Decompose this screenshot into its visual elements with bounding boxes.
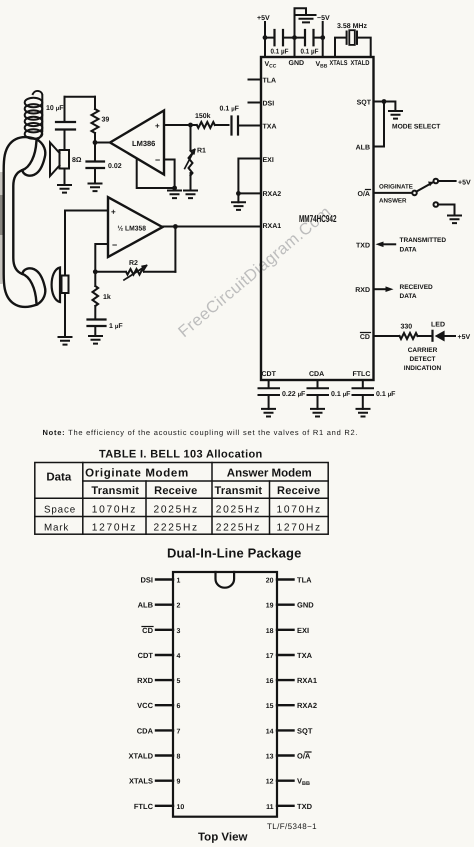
capacitor 1uF: [88, 320, 106, 327]
node junction EXI/RXA2: [236, 191, 241, 196]
wire cap to top: [64, 97, 66, 122]
wire SQT to ALB: [374, 102, 385, 147]
svg-text:39: 39: [102, 117, 110, 124]
svg-text:Receive: Receive: [154, 485, 197, 497]
overline CD pin3: [142, 626, 153, 628]
svg-text:10 µF: 10 µF: [46, 105, 64, 112]
power -5V: [317, 15, 330, 22]
ground (1uF): [89, 336, 102, 344]
svg-text:XTALD: XTALD: [351, 60, 370, 67]
wire 1uF to ground: [94, 326, 96, 336]
svg-text:LED: LED: [431, 322, 445, 329]
DIP pin numbers: [177, 578, 185, 811]
svg-text:15: 15: [266, 703, 274, 710]
ground (mic): [59, 337, 72, 345]
telephone handset handle: [4, 137, 37, 307]
svg-text:TLA: TLA: [263, 78, 277, 85]
node junction LM358 out: [173, 224, 178, 229]
wire LED to +5V: [445, 335, 455, 337]
svg-text:ALB: ALB: [356, 145, 370, 152]
svg-text:Space: Space: [44, 505, 76, 516]
svg-text:1: 1: [177, 578, 181, 585]
svg-text:VCC: VCC: [137, 701, 153, 710]
wire LM386 + input: [164, 124, 191, 126]
svg-text:Answer Modem: Answer Modem: [227, 468, 312, 480]
node junction R1: [188, 123, 193, 128]
svg-text:1070Hz: 1070Hz: [92, 505, 137, 516]
resistor 39: [92, 97, 99, 143]
LED D1: [431, 331, 433, 341]
capacitor 0.22uF (CDT): [259, 380, 280, 409]
svg-text:XTALS: XTALS: [129, 777, 153, 786]
svg-text:DATA: DATA: [400, 293, 417, 300]
capacitor 0.1uF (TXA): [232, 117, 239, 135]
node junction 39/LM386: [93, 140, 98, 145]
svg-text:INDICATION: INDICATION: [404, 365, 442, 372]
svg-text:TXA: TXA: [263, 124, 277, 131]
ground (GND pin): [297, 15, 316, 22]
svg-text:4: 4: [177, 653, 181, 660]
watermark FreeCircuitDiagram.Com: [175, 203, 335, 341]
svg-text:VBB: VBB: [297, 777, 310, 788]
resistor 150k: [191, 122, 229, 128]
switch lever: [417, 182, 434, 192]
node junction R2/1k: [93, 269, 98, 274]
svg-text:1k: 1k: [103, 293, 111, 301]
svg-text:+: +: [111, 208, 116, 217]
svg-text:O/A: O/A: [358, 190, 370, 198]
resistor R1 (variable): [189, 125, 193, 191]
svg-text:Note: The efficiency of the a: Note: The efficiency of the acoustic cou…: [43, 428, 359, 437]
resistor R2 (variable): [95, 269, 175, 275]
svg-text:MM74HC942: MM74HC942: [299, 214, 337, 225]
microphone: [62, 276, 69, 294]
svg-text:TXD: TXD: [297, 802, 313, 811]
wire GND pin up: [295, 8, 307, 57]
wire speaker to ground: [64, 169, 66, 186]
svg-text:TL/F/5348−1: TL/F/5348−1: [267, 822, 317, 831]
ground (CDT): [262, 409, 275, 417]
svg-text:+5V: +5V: [458, 334, 471, 341]
svg-text:MODE SELECT: MODE SELECT: [392, 124, 441, 131]
svg-text:R2: R2: [129, 260, 138, 267]
wire LM386 - feedback: [137, 159, 175, 188]
top view label: [198, 832, 247, 844]
svg-text:2025Hz: 2025Hz: [216, 505, 261, 516]
svg-text:RXA1: RXA1: [297, 676, 317, 685]
svg-text:SQT: SQT: [297, 726, 313, 735]
svg-text:VBB: VBB: [316, 61, 328, 70]
svg-text:Top View: Top View: [198, 832, 247, 844]
svg-text:ANSWER: ANSWER: [379, 198, 407, 205]
pin stub TLA: [249, 79, 262, 81]
svg-text:R1: R1: [197, 148, 206, 155]
svg-text:+5V: +5V: [458, 180, 471, 187]
svg-text:Transmit: Transmit: [214, 485, 262, 497]
ground (LM386 feedback): [168, 191, 181, 199]
ground (speaker): [58, 185, 71, 193]
svg-text:0.1 µF: 0.1 µF: [271, 49, 290, 56]
svg-text:CDT: CDT: [138, 651, 154, 660]
capacitor 0.1uF (FTLC): [353, 380, 374, 409]
svg-text:SQT: SQT: [357, 100, 372, 107]
svg-text:150k: 150k: [195, 112, 211, 120]
DIP pins: [156, 580, 294, 806]
wire SQT: [374, 102, 396, 112]
svg-text:TLA: TLA: [297, 576, 312, 585]
svg-text:EXI: EXI: [263, 157, 274, 164]
svg-text:DATA: DATA: [400, 247, 417, 254]
svg-text:DETECT: DETECT: [410, 356, 436, 363]
svg-text:TABLE I. BELL 103 Allocation: TABLE I. BELL 103 Allocation: [99, 449, 263, 461]
svg-text:CDA: CDA: [137, 726, 154, 735]
svg-text:0.1 µF: 0.1 µF: [220, 106, 240, 113]
wire mic to ground: [64, 293, 66, 337]
svg-text:14: 14: [266, 728, 274, 735]
capacitor 0.1uF (Vcc): [275, 30, 284, 45]
svg-text:RXA1: RXA1: [263, 223, 282, 230]
svg-text:17: 17: [266, 653, 274, 660]
wire VBB: [322, 22, 324, 57]
capacitor 0.02: [87, 162, 105, 169]
svg-text:XTALD: XTALD: [129, 752, 154, 761]
svg-text:0.1 µF: 0.1 µF: [376, 391, 396, 398]
op-amp U2 LM358: [108, 197, 163, 257]
wire GND to VBB cap: [295, 37, 323, 39]
svg-text:TXA: TXA: [297, 651, 313, 660]
svg-text:CD: CD: [142, 626, 153, 635]
wire junction to LM386 output: [95, 142, 110, 144]
svg-text:9: 9: [177, 779, 181, 786]
DIP pin labels left: [129, 576, 154, 811]
overline on O/A pin label: [361, 190, 371, 333]
wire cap to speaker: [64, 130, 66, 151]
power +5V: [257, 15, 270, 22]
wire junction down to 0.02: [94, 143, 96, 162]
svg-text:−: −: [112, 240, 117, 250]
svg-text:Mark: Mark: [44, 522, 69, 533]
svg-text:ALB: ALB: [138, 601, 154, 610]
svg-text:FTLC: FTLC: [353, 371, 371, 378]
arrow RXD received data: [374, 288, 387, 290]
handset coil cord: [33, 91, 43, 140]
svg-text:1 µF: 1 µF: [109, 323, 123, 330]
DIP body: [173, 572, 277, 817]
wire switch to +5V: [438, 180, 456, 182]
svg-text:0.22 µF: 0.22 µF: [282, 391, 306, 398]
op-amp U1 LM386: [110, 111, 164, 175]
node Vcc junction: [263, 35, 268, 40]
svg-text:Transmit: Transmit: [91, 485, 139, 497]
svg-text:330: 330: [401, 324, 413, 331]
arrow TXD transmitted data: [382, 243, 395, 245]
pin stub DSI: [249, 102, 262, 104]
svg-text:16: 16: [266, 678, 274, 685]
svg-text:3: 3: [177, 628, 181, 635]
note text: [43, 428, 359, 437]
svg-text:5: 5: [177, 678, 181, 685]
svg-text:11: 11: [266, 804, 274, 811]
wire lower contact to ground: [438, 205, 454, 216]
svg-text:7: 7: [177, 728, 181, 735]
wire LM358 output to RXA1: [163, 226, 262, 228]
svg-text:GND: GND: [289, 60, 305, 67]
capacitor 0.1uF (VBB): [305, 30, 314, 45]
svg-text:0.02: 0.02: [108, 163, 122, 170]
DIP pin labels right: [297, 576, 317, 811]
svg-text:1270Hz: 1270Hz: [277, 522, 322, 533]
node junction feedback gnd: [172, 186, 177, 191]
svg-text:1070Hz: 1070Hz: [277, 505, 322, 516]
DIP notch: [216, 572, 235, 588]
svg-text:20: 20: [266, 578, 274, 585]
wire junction to ground: [237, 193, 239, 202]
svg-text:ORIGINATE: ORIGINATE: [379, 184, 413, 191]
svg-text:RXA2: RXA2: [297, 701, 317, 710]
node VBB junction: [320, 35, 325, 40]
svg-text:0.1 µF: 0.1 µF: [301, 49, 320, 56]
table title: [99, 449, 263, 461]
wire LM358 + input to mic: [65, 211, 108, 276]
ground (FTLC): [357, 409, 370, 417]
wire feedback up to output: [174, 227, 176, 272]
svg-text:0.1 µF: 0.1 µF: [331, 391, 351, 398]
svg-text:−: −: [155, 155, 160, 165]
ground (EXI/RXA2): [232, 202, 245, 210]
wire cap to TXA: [238, 125, 261, 127]
wire CD: [374, 335, 400, 337]
svg-text:12: 12: [266, 779, 274, 786]
node SQT junction: [382, 99, 387, 104]
handset earpiece cup: [22, 140, 45, 176]
svg-text:DSI: DSI: [263, 101, 275, 108]
node GND junction: [292, 35, 297, 40]
svg-text:LM386: LM386: [132, 139, 155, 148]
ground (0.02): [89, 184, 102, 192]
resistor 1k: [93, 272, 99, 320]
ground (mode select): [389, 111, 402, 119]
svg-text:VCC: VCC: [265, 61, 277, 70]
wire Vcc: [264, 22, 266, 57]
svg-text:19: 19: [266, 603, 274, 610]
svg-text:2025Hz: 2025Hz: [154, 505, 199, 516]
svg-text:FTLC: FTLC: [134, 802, 154, 811]
svg-text:CDT: CDT: [262, 371, 277, 378]
wire LM358 - input: [95, 244, 108, 272]
svg-text:Dual-In-Line Package: Dual-In-Line Package: [167, 546, 301, 561]
svg-text:O/A: O/A: [297, 752, 311, 761]
svg-text:Originate Modem: Originate Modem: [85, 468, 189, 480]
svg-text:2225Hz: 2225Hz: [154, 522, 199, 533]
svg-text:+: +: [155, 121, 160, 130]
svg-text:13: 13: [266, 754, 274, 761]
handset mouthpiece cup: [22, 268, 45, 304]
doc number: [267, 822, 317, 831]
svg-text:½ LM358: ½ LM358: [118, 226, 147, 233]
svg-text:RXD: RXD: [137, 676, 153, 685]
ground (R1): [184, 191, 197, 199]
svg-text:Receive: Receive: [277, 485, 320, 497]
svg-text:1270Hz: 1270Hz: [92, 522, 137, 533]
wire EXI to RXA2: [238, 159, 261, 194]
ground (CDA): [311, 409, 324, 417]
switch O/A originate-answer: [374, 192, 413, 194]
DIP title: [167, 546, 301, 561]
svg-text:GND: GND: [297, 601, 314, 610]
svg-text:DSI: DSI: [140, 576, 153, 585]
svg-text:CD: CD: [360, 334, 370, 341]
table grid: [35, 463, 328, 535]
svg-text:TXD: TXD: [356, 243, 370, 250]
wire 0.02 to ground: [94, 168, 96, 184]
svg-text:6: 6: [177, 703, 181, 710]
svg-text:RECEIVED: RECEIVED: [400, 284, 434, 291]
scan edge artifact: [0, 172, 4, 284]
svg-text:RXD: RXD: [355, 287, 370, 294]
svg-text:XTALS: XTALS: [330, 60, 348, 67]
svg-text:TRANSMITTED: TRANSMITTED: [400, 237, 447, 244]
capacitor 0.1uF (CDA): [308, 380, 329, 409]
svg-text:+5V: +5V: [257, 15, 270, 22]
resistor 330: [400, 333, 433, 339]
svg-text:Data: Data: [46, 472, 72, 484]
svg-text:8Ω: 8Ω: [72, 157, 82, 164]
wire top left horizontal: [65, 96, 96, 98]
capacitor 10uF: [56, 122, 75, 130]
svg-text:EXI: EXI: [297, 626, 309, 635]
svg-text:8: 8: [177, 754, 181, 761]
ground (answer contact): [448, 216, 461, 224]
svg-text:2: 2: [177, 603, 181, 610]
table text: [46, 468, 311, 484]
svg-text:RXA2: RXA2: [263, 191, 282, 198]
speaker 8ohm: [60, 150, 70, 169]
overline A pin13: [305, 751, 311, 753]
svg-text:18: 18: [266, 628, 274, 635]
crystal Y1 3.58 MHz: [337, 23, 367, 30]
svg-text:2225Hz: 2225Hz: [216, 522, 261, 533]
svg-text:CARRIER: CARRIER: [408, 347, 438, 354]
svg-text:−5V: −5V: [317, 15, 330, 22]
svg-text:CDA: CDA: [309, 371, 324, 378]
svg-text:3.58 MHz: 3.58 MHz: [337, 23, 367, 30]
wire Vcc cap link: [265, 37, 295, 39]
svg-text:10: 10: [177, 804, 185, 811]
IC U3 MM74HC942 body: [261, 57, 374, 380]
